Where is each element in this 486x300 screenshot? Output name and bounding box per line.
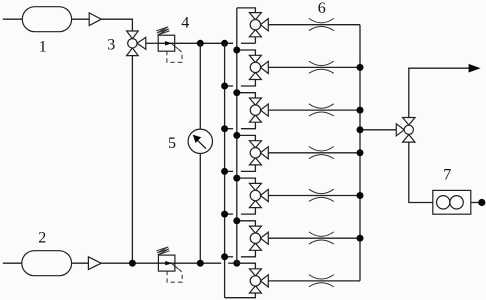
- bottom regulator pilot line (dashed): [172, 264, 178, 269]
- svg-text:1: 1: [39, 38, 47, 55]
- node bus B row 2: [233, 47, 240, 54]
- valve V1 (bank three-way valve row 1): [249, 13, 261, 20]
- node collector row 6: [357, 235, 364, 242]
- wire valve V5 bottom port to bus A (hops bus B): [241, 208, 256, 215]
- regulator 4 body: [158, 35, 175, 51]
- wire flowmeter to terminal: [471, 202, 480, 204]
- node bus A row 5: [221, 211, 228, 218]
- wire valve V1 bottom port to supply line: [254, 37, 256, 44]
- wire collector to outlet valve: [360, 129, 396, 131]
- node collector / outlet branch: [357, 126, 364, 133]
- node supply/gauge junction: [197, 40, 204, 47]
- wire valve V1 output to collector: [268, 24, 360, 26]
- wire valve 3 to regulator 4: [146, 42, 158, 44]
- flow restrictor 6 row 1: [309, 18, 334, 22]
- bottom regulator body: [158, 255, 175, 271]
- wire bus B to valve V4 top port: [237, 135, 256, 140]
- node bus B row 3: [233, 89, 240, 96]
- wire bus B to valve V5 top port: [237, 178, 256, 183]
- regulator 4 flow line and arrow: [158, 42, 175, 44]
- valve V6 (bank three-way valve row 6): [249, 226, 261, 233]
- node bus A row 4: [221, 168, 228, 175]
- wire valve V6 bottom port to bus A (hops bus B): [241, 250, 256, 256]
- wire bus B top to valve V1 top port: [237, 8, 256, 13]
- wire bus B to valve V2 top port: [237, 50, 256, 55]
- wire inlet to tank 2: [3, 262, 22, 264]
- valve V2 (bank three-way valve row 2): [249, 55, 261, 62]
- valve V3 (bank three-way valve row 3): [249, 98, 261, 105]
- bottom regulator flow line and arrow: [158, 262, 175, 264]
- check valve after tank 1: [89, 13, 101, 26]
- wire valve V6 output to collector: [268, 237, 360, 239]
- wire regulator 4 to manifold (hops bus B): [175, 42, 233, 44]
- flow restrictor 6 row 4: [309, 147, 334, 151]
- terminal node: [478, 199, 485, 206]
- wire check valve to valve 3: [101, 19, 132, 31]
- regulator 4 spring: [156, 27, 169, 35]
- node collector row 4: [357, 149, 364, 156]
- valve V7 (bank three-way valve row 7): [249, 269, 261, 276]
- wire junction down to gauge 5: [199, 43, 201, 129]
- wire valve V7 output to collector: [268, 280, 360, 282]
- pressure gauge 5: [188, 129, 212, 153]
- wire valve 3 down to bottom supply line: [131, 56, 133, 264]
- node collector row 5: [357, 192, 364, 199]
- wire outlet valve up and out: [409, 68, 469, 117]
- svg-text:7: 7: [443, 166, 451, 183]
- bottom regulator spring: [156, 247, 169, 255]
- flow restrictor 6 row 6: [309, 232, 334, 236]
- svg-text:2: 2: [38, 229, 46, 246]
- wire check valve to bottom regulator: [101, 262, 158, 264]
- tank 1 (gas source vessel): [22, 7, 71, 32]
- node bus A row 2: [221, 83, 228, 90]
- tank 2 (gas source vessel): [22, 251, 72, 276]
- valve V4 (bank three-way valve row 4): [249, 141, 261, 148]
- wire gauge 5 down to bottom supply: [199, 154, 201, 264]
- node bus B row 4: [233, 132, 240, 139]
- flow restrictor 6 row 7: [309, 275, 334, 279]
- node collector row 2: [357, 64, 364, 71]
- node bus B row 5: [233, 175, 240, 182]
- svg-text:5: 5: [168, 135, 176, 152]
- node supply/bus A junction: [221, 40, 228, 47]
- valve V5 (bank three-way valve row 5): [249, 183, 261, 190]
- wire bottom regulator to bus B (hops bus A): [175, 262, 221, 264]
- wire valve V2 bottom port to bus A (hops bus B): [241, 80, 256, 87]
- wire valve V4 output to collector: [268, 152, 360, 154]
- flow restrictor 6 row 5: [309, 189, 334, 193]
- svg-text:4: 4: [181, 15, 189, 32]
- wire valve V2 output to collector: [268, 66, 360, 68]
- wire valve V5 output to collector: [268, 195, 360, 197]
- flowmeter 7: [433, 190, 471, 214]
- wire bus B to valve V3 top port: [237, 93, 256, 98]
- node collector row 3: [357, 107, 364, 114]
- outlet arrow: [469, 64, 481, 73]
- wire inlet to tank 1: [3, 18, 23, 20]
- wire valve V4 bottom port to bus A (hops bus B): [241, 165, 256, 172]
- regulator 4 pilot line (dashed): [172, 44, 178, 49]
- wire outlet valve down to flowmeter 7: [409, 142, 433, 202]
- flow restrictor 6 row 2: [309, 61, 334, 65]
- node bus A row 6: [221, 253, 228, 260]
- svg-text:6: 6: [318, 0, 326, 17]
- wire tank 2 to check valve: [72, 262, 89, 264]
- valve 3 (three-way shutoff valve): [127, 31, 139, 39]
- wire valve V3 output to collector: [268, 109, 360, 111]
- node valve3 line / bottom supply junction: [129, 260, 136, 267]
- node bus B row 6: [233, 217, 240, 224]
- node bus A row 3: [221, 125, 228, 132]
- wire valve V3 bottom port to bus A (hops bus B): [241, 122, 256, 129]
- check valve after tank 2: [88, 257, 101, 270]
- outlet valve (three-way): [403, 118, 415, 126]
- svg-text:3: 3: [107, 36, 115, 53]
- bus B (second manifold line): [236, 8, 238, 263]
- node bottom supply / bus B junction: [233, 260, 240, 267]
- bus A (left manifold line): [224, 43, 226, 297]
- node bottom supply / gauge line junction: [197, 260, 204, 267]
- wire tank 1 to check valve: [72, 18, 90, 20]
- wire valve V7 bottom port to bus A bottom: [225, 293, 256, 298]
- right collector bus: [359, 25, 361, 281]
- wire bus B to valve V7 top port: [237, 263, 256, 269]
- wire bus B to valve V6 top port: [237, 221, 256, 226]
- flow restrictor 6 row 3: [309, 104, 334, 108]
